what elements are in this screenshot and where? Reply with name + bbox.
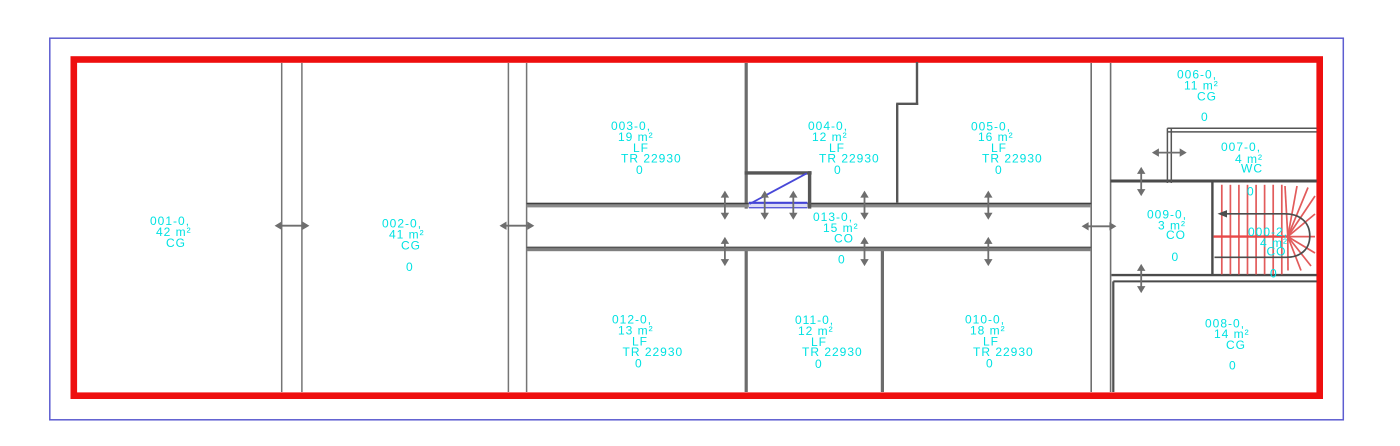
- svg-text:0: 0: [1247, 185, 1255, 199]
- svg-text:CG: CG: [1197, 90, 1217, 104]
- door arrow alcove left: [761, 191, 769, 220]
- svg-text:TR 22930: TR 22930: [802, 345, 863, 359]
- svg-text:0: 0: [406, 260, 414, 274]
- svg-text:TR 22930: TR 22930: [982, 152, 1043, 166]
- alcove right wall: [808, 171, 811, 208]
- stairs left wall: [1211, 183, 1213, 275]
- svg-text:CG: CG: [166, 236, 186, 250]
- svg-text:0: 0: [636, 163, 644, 177]
- wall 005/right section: [1090, 63, 1092, 392]
- wall 012/011: [745, 250, 748, 392]
- stair treads: [1222, 185, 1282, 275]
- door arrow 002/corridor: [500, 222, 535, 230]
- wall 006+007 / 009+stairs: [1111, 180, 1317, 183]
- svg-text:TR 22930: TR 22930: [973, 345, 1034, 359]
- room label 005: [971, 120, 1043, 178]
- door arrow corridor/009: [1082, 222, 1117, 230]
- room label 007: [1221, 140, 1263, 199]
- stair mid landing line: [1214, 235, 1288, 237]
- room label 013: [813, 210, 859, 267]
- svg-text:TR 22930: TR 22930: [621, 152, 682, 166]
- door arrow corridor/011: [860, 237, 868, 266]
- room label 001: [150, 214, 192, 250]
- red building outline: [74, 60, 1320, 396]
- wall 001/002: [281, 63, 283, 392]
- blue outer frame: [50, 38, 1344, 420]
- wall 009/008: [1112, 274, 1317, 276]
- svg-text:TR 22930: TR 22930: [623, 345, 684, 359]
- room label 008: [1205, 317, 1250, 373]
- room 007 top wall: [1167, 127, 1316, 129]
- door arrow corridor/010: [984, 237, 992, 266]
- svg-text:0: 0: [1270, 267, 1278, 281]
- stair walk line with arrow: [1215, 214, 1310, 257]
- stair winder fan: [1285, 186, 1315, 271]
- room label 010: [965, 313, 1034, 371]
- room label 012: [612, 313, 683, 371]
- door arrow 001/002: [275, 222, 310, 230]
- svg-text:0: 0: [986, 357, 994, 371]
- room 007 left wall: [1166, 128, 1168, 183]
- room label 004: [808, 119, 880, 177]
- svg-text:CO: CO: [834, 232, 854, 246]
- blue door threshold: [749, 202, 808, 208]
- room label 011: [795, 313, 863, 371]
- room label 009: [1147, 208, 1187, 265]
- svg-text:0: 0: [1201, 110, 1209, 124]
- svg-text:CG: CG: [401, 239, 421, 253]
- svg-text:CO: CO: [1166, 228, 1186, 242]
- door arrow alcove right: [789, 191, 797, 220]
- room label 002: [382, 217, 425, 275]
- door arrow corridor/003: [721, 191, 729, 220]
- door arrow corridor/005: [984, 191, 992, 220]
- room label 006: [1177, 68, 1219, 125]
- svg-text:0: 0: [834, 163, 842, 177]
- room label 003: [611, 119, 682, 177]
- blue door diagonal: [750, 173, 807, 204]
- room 008 left wall: [1112, 281, 1114, 392]
- door arrow corridor/004: [860, 191, 868, 220]
- wall 002/003: [507, 63, 509, 392]
- door arrow 006/009: [1137, 167, 1145, 196]
- svg-text:WC: WC: [1241, 162, 1263, 176]
- corridor top wall: [527, 203, 1092, 208]
- alcove top wall: [745, 171, 812, 174]
- svg-text:CO: CO: [1267, 245, 1287, 259]
- door arrow 006/007: [1152, 148, 1187, 156]
- svg-text:0: 0: [838, 253, 846, 267]
- room label 000-2 stairs: [1248, 225, 1288, 281]
- svg-text:0: 0: [635, 357, 643, 371]
- svg-text:0: 0: [995, 163, 1003, 177]
- door arrow corridor/012: [721, 237, 729, 266]
- svg-text:0: 0: [1229, 359, 1237, 373]
- wall 003/004: [745, 63, 748, 209]
- svg-text:0: 0: [815, 357, 823, 371]
- svg-text:TR 22930: TR 22930: [819, 152, 880, 166]
- svg-text:CG: CG: [1226, 338, 1246, 352]
- wall 004/005 jogged: [916, 62, 918, 105]
- corridor bottom wall: [527, 247, 1092, 252]
- wall 011/010: [881, 250, 884, 392]
- svg-text:0: 0: [1172, 250, 1180, 264]
- door arrow 009/008: [1137, 264, 1145, 293]
